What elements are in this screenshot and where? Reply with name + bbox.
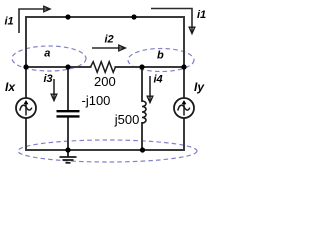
svg-text:i1: i1	[5, 16, 14, 28]
svg-text:Ix: Ix	[5, 80, 16, 94]
svg-text:a: a	[44, 48, 50, 60]
svg-text:-j100: -j100	[82, 93, 111, 108]
svg-text:i1: i1	[197, 9, 206, 21]
svg-text:Iy: Iy	[194, 80, 205, 94]
svg-text:i3: i3	[44, 73, 53, 85]
svg-text:200: 200	[94, 74, 116, 89]
svg-text:j500: j500	[114, 112, 140, 127]
svg-text:b: b	[157, 49, 164, 61]
svg-text:i4: i4	[154, 74, 163, 86]
svg-text:i2: i2	[105, 34, 114, 46]
